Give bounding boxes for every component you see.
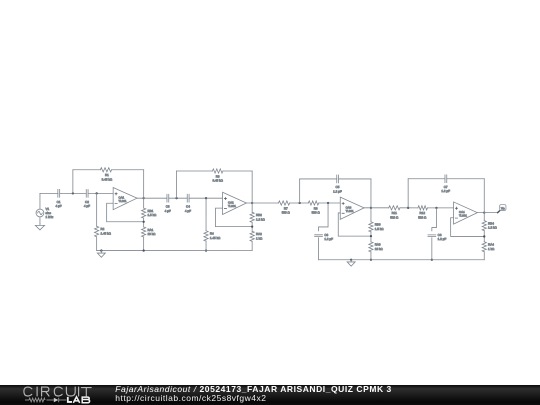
- svg-text:4 µF: 4 µF: [165, 209, 171, 213]
- wire C2 to OA1 +in: [88, 192, 113, 194]
- capacitor C3 4 uF: [165, 194, 171, 213]
- wire node H down jog to C8: [432, 208, 437, 231]
- node C junction: [175, 197, 177, 199]
- svg-text:1.2 µF: 1.2 µF: [441, 189, 450, 193]
- ground (right rail): [347, 260, 355, 266]
- svg-text:3.45 kΩ: 3.45 kΩ: [102, 177, 113, 181]
- wire node C up to R3: [176, 171, 178, 198]
- svg-text:10 kΩ: 10 kΩ: [147, 232, 156, 236]
- wire C8 to rail: [431, 238, 433, 260]
- wire OA4 -in stub: [451, 218, 485, 237]
- resistor R1 3.45 k: [100, 168, 112, 182]
- svg-text:1.2 µF: 1.2 µF: [438, 237, 447, 241]
- wire RB2 to midpoint: [251, 222, 253, 231]
- op-amp OA2 TL081: [223, 192, 247, 214]
- wire feedback vertical (C7 to OA4 out): [483, 179, 485, 213]
- node F junction (C6 tap): [327, 202, 329, 204]
- wire node B down to R2: [96, 193, 98, 226]
- wire feedback vertical (C5 to OA3 out): [370, 179, 372, 208]
- wire OA3 -in stub: [338, 213, 371, 236]
- probe tail: [498, 210, 501, 213]
- svg-text:523 Ω: 523 Ω: [390, 215, 399, 219]
- svg-text:1.2 µF: 1.2 µF: [333, 189, 342, 193]
- svg-text:4 µF: 4 µF: [185, 209, 191, 213]
- node B junction (R2 tap): [96, 192, 98, 194]
- node C8 rail junction: [431, 259, 433, 261]
- wire RB1 to midpoint: [143, 218, 145, 227]
- wire RA1 to rail: [143, 237, 145, 251]
- wire R3 right lead: [223, 170, 252, 172]
- wire OA2 output: [246, 202, 252, 204]
- svg-text:1.2 kΩ: 1.2 kΩ: [488, 226, 498, 230]
- wire R4 to rail: [205, 241, 207, 251]
- wire C4 to OA2 +in: [189, 197, 223, 199]
- svg-text:TL081: TL081: [459, 214, 467, 218]
- node right ground junction: [350, 259, 352, 261]
- svg-text:4 µF: 4 µF: [84, 204, 90, 208]
- wire OA4 out to probe: [484, 212, 497, 214]
- node RA3 rail junction: [370, 259, 372, 261]
- svg-text:Vo: Vo: [501, 206, 505, 210]
- wire feedback vertical (R3 to OA2 out): [251, 171, 253, 203]
- wire OA3 out down to RB3: [370, 208, 372, 222]
- capacitor C5 1.2 uF: [333, 175, 342, 193]
- svg-text:1.5 kΩ: 1.5 kΩ: [375, 227, 385, 231]
- svg-text:1.45 kΩ: 1.45 kΩ: [210, 236, 221, 240]
- resistor R4 1.45 k: [204, 231, 221, 241]
- wire R1 left lead: [73, 169, 101, 171]
- wire OA2 out to R7: [252, 202, 278, 204]
- footer bar: [0, 385, 540, 405]
- svg-text:3.45 kΩ: 3.45 kΩ: [212, 178, 223, 182]
- wire R1 right lead: [112, 169, 144, 171]
- node OA4 out junction: [483, 212, 485, 214]
- wire C5 left lead: [300, 178, 337, 180]
- wire R7 to R8: [290, 202, 309, 204]
- node ground rail junction: [100, 249, 102, 251]
- resistor RB3 1.5 k: [369, 222, 384, 232]
- resistor R11 523 Ohm: [389, 206, 400, 220]
- wire left ground rail: [97, 250, 253, 252]
- wire node D down to R4: [205, 198, 207, 231]
- svg-text:TL081: TL081: [346, 209, 354, 213]
- node RB1/RA1 midpoint: [143, 221, 145, 223]
- wire node A up to R1: [72, 170, 74, 194]
- op-amp OA1 TL081: [113, 187, 137, 209]
- wire OA4 out down to RB4: [483, 213, 485, 221]
- wire OA2 out down to RB2: [251, 203, 253, 212]
- node H junction (C8 tap): [435, 207, 437, 209]
- CircuitLab logo resistor-diode line: [25, 398, 66, 403]
- node RB4/RA4 midpoint: [483, 235, 485, 237]
- wire R2 to rail: [96, 237, 98, 251]
- node RB2/RA2 midpoint: [251, 225, 253, 227]
- CircuitLab logo text LAB: [68, 397, 90, 403]
- wire R8 to OA3 +in: [319, 202, 341, 204]
- CircuitLab logo text CIRCUIT: [24, 387, 91, 396]
- node G junction (C7 tap): [407, 207, 409, 209]
- svg-text:1 kΩ: 1 kΩ: [488, 247, 495, 251]
- wire output down to RB1: [143, 198, 145, 208]
- resistor RB1 1.5 k: [142, 208, 157, 218]
- capacitor C2 4 uF: [84, 189, 90, 208]
- wire OA1 output: [137, 197, 144, 199]
- op-amp OA3 TL081: [340, 197, 364, 219]
- resistor RA3 10 k: [369, 242, 384, 252]
- node D junction (R4 tap): [205, 197, 207, 199]
- node RB3/RA3 midpoint: [370, 235, 372, 237]
- capacitor C1 4 uF: [56, 189, 62, 208]
- wire right ground rail: [319, 259, 485, 261]
- wire C7 right lead: [447, 178, 485, 180]
- wire R3 left lead: [177, 170, 213, 172]
- wire OA3 out to R11: [371, 207, 389, 209]
- svg-text:1 kHz: 1 kHz: [46, 215, 54, 219]
- svg-text:1.5 kΩ: 1.5 kΩ: [147, 213, 157, 217]
- wire C7 left lead: [408, 178, 445, 180]
- wire OA1 -in stub: [107, 203, 144, 222]
- resistor RB4 1.2 k: [482, 221, 497, 231]
- wire RB3 to midpoint: [370, 232, 372, 242]
- wire RA4 to rail: [483, 252, 485, 260]
- svg-text:10 kΩ: 10 kΩ: [375, 247, 384, 251]
- resistor RB2 1.2 k: [250, 212, 265, 222]
- resistor RA1 10 k: [142, 227, 157, 237]
- voltage source V1 sine 1 kHz: [36, 193, 54, 223]
- node A junction: [72, 192, 74, 194]
- capacitor C8 1.2 uF: [428, 233, 446, 241]
- wire OA1 out to C3: [144, 197, 167, 199]
- wire C3 to node C: [169, 197, 188, 199]
- capacitor C6 1.2 uF: [315, 233, 333, 241]
- wire node G up to C7: [407, 179, 409, 208]
- resistor R2 1.45 k: [95, 226, 112, 237]
- wire RB4 to midpoint: [483, 231, 485, 242]
- node R4 rail junction: [205, 249, 207, 251]
- svg-text:TL081: TL081: [119, 199, 127, 203]
- svg-text:523 Ω: 523 Ω: [418, 215, 427, 219]
- svg-text:523 Ω: 523 Ω: [312, 211, 321, 215]
- svg-text:523 Ω: 523 Ω: [282, 211, 291, 215]
- wire OA3 output: [364, 207, 371, 209]
- wire C5 right lead: [339, 178, 371, 180]
- svg-text:1.2 µF: 1.2 µF: [324, 237, 333, 241]
- resistor R12 523 Ohm: [418, 206, 427, 220]
- resistor R3 3.45 k: [212, 169, 223, 183]
- resistor R8 523 Ohm: [308, 201, 320, 215]
- svg-text:1.45 kΩ: 1.45 kΩ: [100, 231, 111, 235]
- svg-text:1.2 kΩ: 1.2 kΩ: [256, 217, 266, 221]
- resistor R7 523 Ohm: [278, 201, 290, 215]
- wire R12 to OA4 +in: [427, 207, 453, 209]
- wire OA2 -in stub: [215, 208, 252, 227]
- wire R11 to R12: [400, 207, 418, 209]
- capacitor C7 1.2 uF: [441, 175, 450, 193]
- node RA1 rail junction: [142, 249, 144, 251]
- ground (left rail): [97, 251, 105, 258]
- wire node F down jog to C6: [319, 203, 329, 231]
- output probe Vo: [500, 205, 506, 211]
- resistor RA4 1 k: [482, 242, 495, 252]
- wire RA2 to rail: [251, 241, 253, 250]
- wire OA4 output: [477, 212, 484, 214]
- wire feedback vertical (R1 to output): [143, 170, 145, 198]
- wire RA3 to rail: [370, 252, 372, 260]
- node OA2 out junction: [251, 202, 253, 204]
- wire node E up to C5: [299, 179, 301, 203]
- node E junction (C5 tap): [299, 202, 301, 204]
- ground (V1): [35, 224, 44, 230]
- op-amp OA4 TL081: [454, 202, 478, 224]
- wire V1 to C1: [40, 192, 58, 194]
- wire C1 to node A: [60, 192, 86, 194]
- node OA3 out junction: [370, 207, 372, 209]
- svg-text:TL081: TL081: [228, 204, 236, 208]
- capacitor C4 4 uF: [185, 194, 191, 213]
- svg-text:1 kΩ: 1 kΩ: [256, 236, 263, 240]
- svg-text:4 µF: 4 µF: [56, 204, 62, 208]
- resistor RA2 1 k: [250, 231, 263, 241]
- node OA1 out junction: [143, 197, 145, 199]
- wire C6 to rail: [318, 238, 320, 260]
